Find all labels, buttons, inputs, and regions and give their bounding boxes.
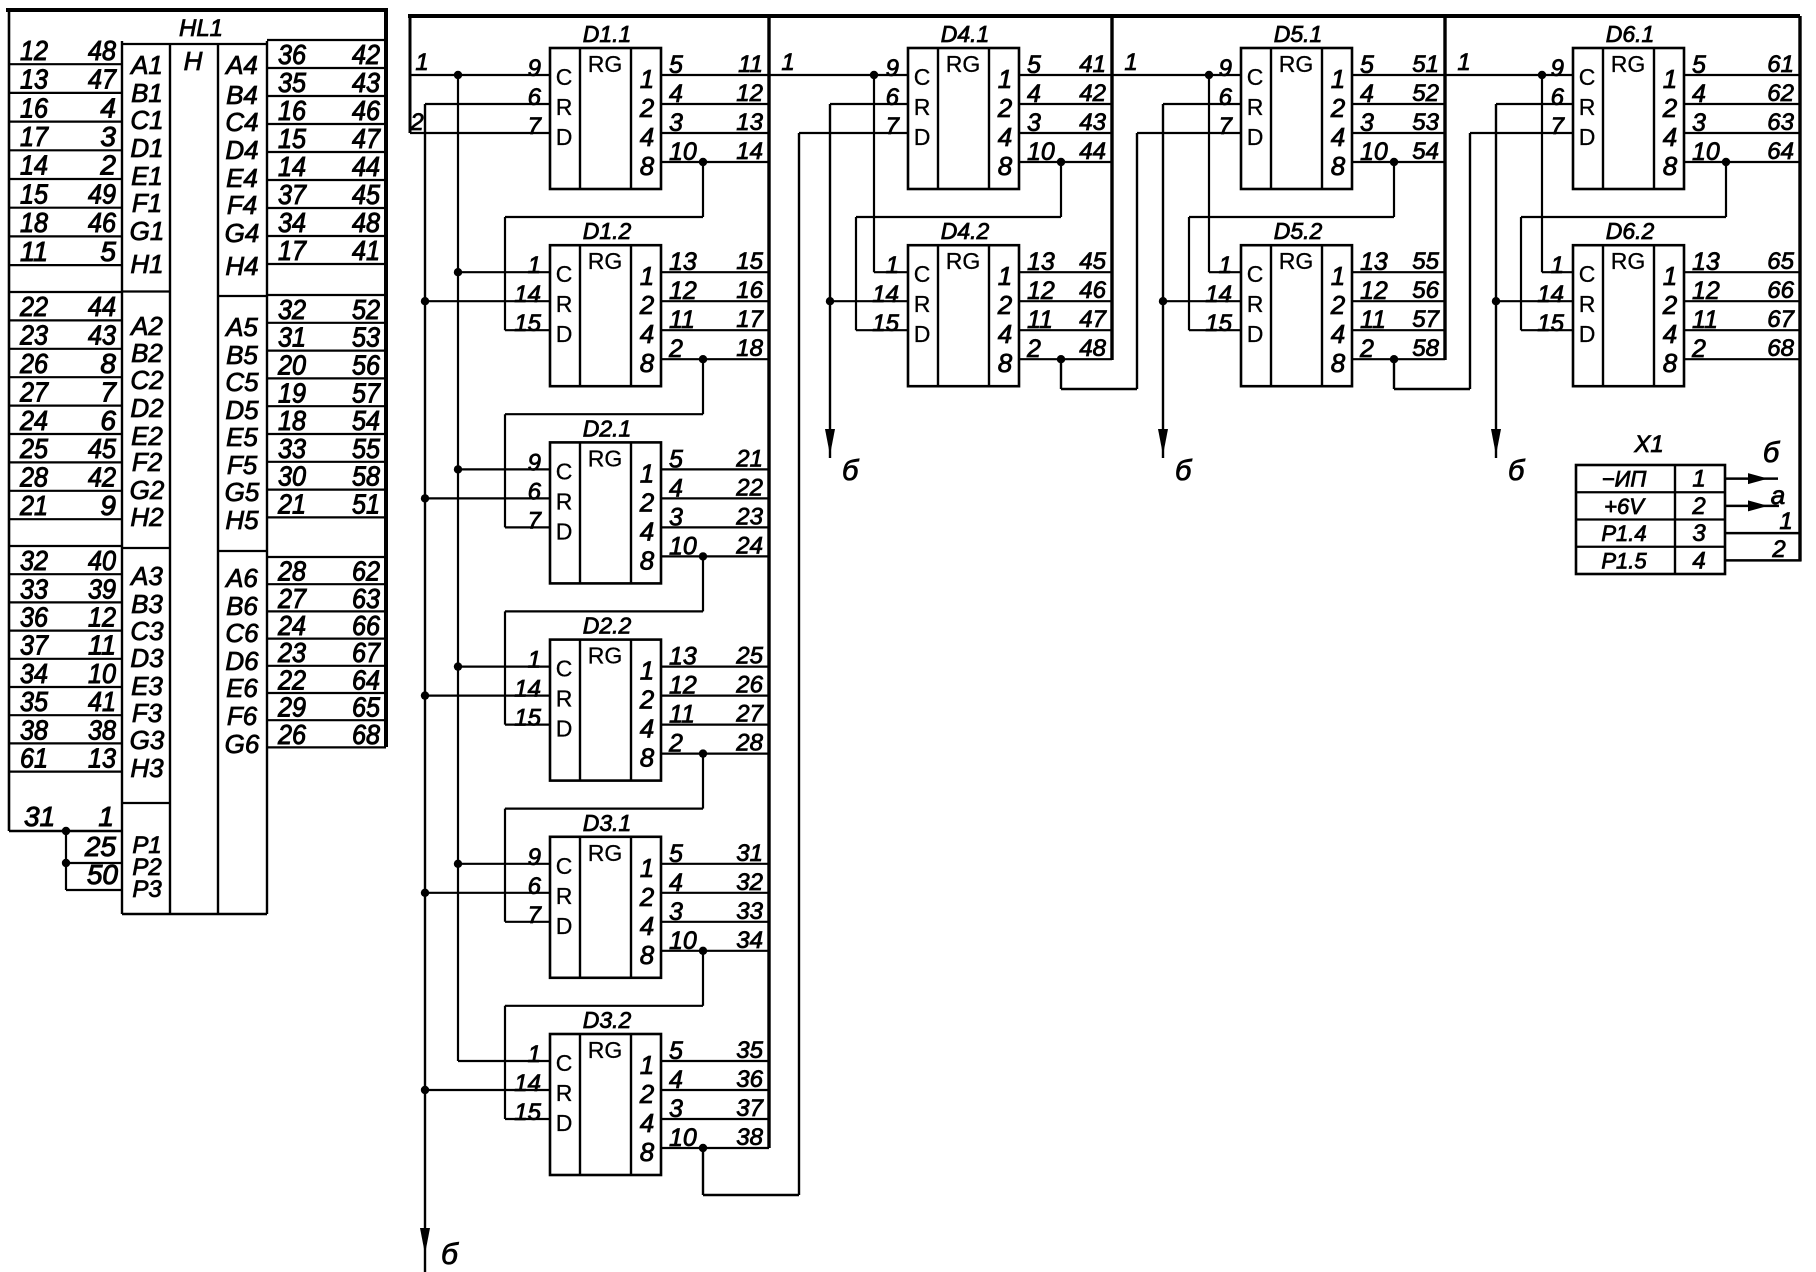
svg-text:3: 3 (1360, 109, 1374, 137)
svg-text:24: 24 (735, 532, 763, 559)
svg-text:42: 42 (88, 462, 116, 493)
svg-text:38: 38 (736, 1124, 763, 1151)
svg-text:12: 12 (1692, 277, 1720, 305)
svg-text:3: 3 (669, 109, 683, 137)
svg-text:B6: B6 (226, 591, 258, 621)
svg-text:RG: RG (1611, 248, 1646, 274)
svg-text:13: 13 (1027, 248, 1055, 276)
svg-text:C: C (1247, 261, 1264, 287)
svg-text:44: 44 (88, 291, 116, 322)
svg-text:C: C (1579, 261, 1596, 287)
svg-text:2: 2 (997, 290, 1013, 320)
svg-text:34: 34 (278, 207, 306, 238)
svg-text:1: 1 (528, 252, 541, 279)
svg-text:R: R (556, 488, 573, 514)
svg-text:C: C (556, 1050, 573, 1076)
svg-text:8: 8 (640, 545, 655, 575)
svg-text:3: 3 (669, 898, 683, 926)
svg-text:D1.1: D1.1 (583, 21, 632, 47)
svg-text:2: 2 (99, 150, 116, 181)
svg-text:C: C (914, 261, 931, 287)
svg-text:12: 12 (1027, 277, 1055, 305)
svg-text:42: 42 (352, 39, 380, 70)
svg-text:C: C (556, 64, 573, 90)
svg-text:32: 32 (736, 869, 763, 896)
svg-text:D3.2: D3.2 (583, 1007, 632, 1033)
svg-text:28: 28 (735, 730, 763, 757)
svg-text:2: 2 (639, 1079, 655, 1109)
svg-text:12: 12 (736, 80, 763, 107)
svg-text:RG: RG (1279, 248, 1314, 274)
svg-text:25: 25 (84, 831, 117, 862)
svg-text:G6: G6 (225, 729, 260, 759)
svg-text:7: 7 (100, 376, 117, 407)
svg-text:R: R (556, 94, 573, 120)
svg-text:37: 37 (736, 1095, 764, 1122)
svg-text:36: 36 (278, 39, 306, 70)
svg-text:7: 7 (1219, 113, 1234, 140)
svg-text:б: б (1175, 455, 1193, 487)
svg-text:D: D (556, 1110, 573, 1136)
svg-text:H4: H4 (225, 251, 258, 281)
svg-text:56: 56 (352, 350, 380, 381)
svg-text:9: 9 (100, 490, 116, 521)
svg-text:C6: C6 (225, 618, 259, 648)
svg-text:14: 14 (514, 676, 541, 703)
svg-text:4: 4 (1331, 122, 1345, 152)
svg-text:16: 16 (20, 92, 48, 123)
svg-text:6: 6 (528, 873, 542, 900)
svg-text:14: 14 (278, 151, 306, 182)
svg-text:9: 9 (1551, 55, 1564, 82)
svg-text:10: 10 (88, 658, 116, 689)
svg-text:3: 3 (1692, 520, 1706, 547)
svg-text:22: 22 (19, 291, 48, 322)
svg-text:32: 32 (278, 294, 306, 325)
svg-text:4: 4 (640, 714, 654, 744)
svg-text:C1: C1 (130, 105, 163, 135)
svg-text:C3: C3 (130, 616, 164, 646)
svg-text:F5: F5 (227, 450, 258, 480)
svg-text:64: 64 (1767, 138, 1794, 165)
svg-text:4: 4 (1663, 319, 1677, 349)
svg-text:8: 8 (640, 348, 655, 378)
svg-text:40: 40 (88, 545, 116, 576)
svg-text:11: 11 (1360, 306, 1386, 334)
svg-text:1: 1 (1219, 252, 1232, 279)
svg-text:P3: P3 (132, 876, 162, 903)
svg-text:1: 1 (998, 261, 1012, 291)
svg-text:9: 9 (1219, 55, 1232, 82)
svg-text:46: 46 (88, 207, 116, 238)
svg-text:D6: D6 (225, 646, 259, 676)
svg-text:35: 35 (20, 686, 48, 717)
svg-text:15: 15 (1537, 310, 1564, 337)
svg-text:RG: RG (588, 1037, 623, 1063)
svg-text:1: 1 (1457, 49, 1470, 76)
svg-text:D: D (914, 124, 931, 150)
svg-text:D5: D5 (225, 395, 259, 425)
svg-text:3: 3 (1692, 109, 1706, 137)
svg-text:3: 3 (669, 503, 683, 531)
svg-text:C: C (1579, 64, 1596, 90)
svg-text:D: D (556, 124, 573, 150)
svg-text:15: 15 (20, 178, 48, 209)
svg-text:D4.1: D4.1 (941, 21, 990, 47)
svg-text:13: 13 (736, 109, 763, 136)
svg-text:4: 4 (640, 1108, 654, 1138)
svg-text:8: 8 (640, 743, 655, 773)
svg-text:E3: E3 (131, 671, 163, 701)
svg-text:65: 65 (1767, 248, 1794, 275)
svg-text:27: 27 (19, 376, 49, 407)
svg-text:D3.1: D3.1 (583, 810, 632, 836)
svg-text:13: 13 (88, 743, 116, 774)
svg-text:F2: F2 (132, 447, 163, 477)
svg-text:A4: A4 (224, 50, 258, 80)
svg-text:37: 37 (278, 179, 307, 210)
svg-text:D: D (1579, 321, 1596, 347)
svg-text:1: 1 (640, 853, 654, 883)
svg-text:68: 68 (352, 719, 380, 750)
svg-text:33: 33 (278, 433, 306, 464)
svg-text:R: R (1247, 291, 1264, 317)
svg-text:1: 1 (998, 64, 1012, 94)
svg-text:б: б (1763, 437, 1781, 469)
svg-text:58: 58 (352, 461, 380, 492)
svg-text:14: 14 (736, 138, 763, 165)
svg-text:44: 44 (1079, 138, 1106, 165)
svg-text:RG: RG (588, 51, 623, 77)
svg-text:A5: A5 (224, 312, 258, 342)
svg-text:5: 5 (1692, 51, 1706, 79)
svg-text:10: 10 (669, 532, 697, 560)
svg-text:G4: G4 (225, 218, 260, 248)
svg-text:1: 1 (415, 49, 428, 76)
svg-text:8: 8 (998, 348, 1013, 378)
svg-text:8: 8 (998, 151, 1013, 181)
svg-text:35: 35 (278, 67, 306, 98)
svg-text:13: 13 (1692, 248, 1720, 276)
svg-text:C: C (556, 261, 573, 287)
svg-text:66: 66 (1767, 277, 1794, 304)
svg-text:C2: C2 (130, 365, 164, 395)
svg-text:5: 5 (669, 840, 683, 868)
svg-text:41: 41 (88, 686, 116, 717)
svg-text:4: 4 (998, 122, 1012, 152)
svg-text:D6.2: D6.2 (1606, 218, 1655, 244)
svg-text:1: 1 (1331, 64, 1345, 94)
svg-text:RG: RG (1611, 51, 1646, 77)
svg-text:41: 41 (1079, 51, 1106, 78)
svg-text:8: 8 (100, 348, 116, 379)
svg-text:4: 4 (1360, 80, 1374, 108)
svg-text:R: R (1579, 291, 1596, 317)
svg-text:31: 31 (736, 840, 763, 867)
svg-text:15: 15 (1205, 310, 1232, 337)
svg-text:45: 45 (1079, 248, 1106, 275)
svg-text:9: 9 (528, 55, 541, 82)
svg-text:24: 24 (19, 405, 48, 436)
svg-text:52: 52 (1412, 80, 1439, 107)
svg-text:55: 55 (1412, 248, 1439, 275)
svg-text:7: 7 (528, 902, 543, 929)
svg-text:11: 11 (88, 630, 116, 661)
svg-text:45: 45 (352, 179, 380, 210)
svg-text:R: R (556, 883, 573, 909)
svg-text:47: 47 (1079, 306, 1107, 333)
svg-text:RG: RG (588, 840, 623, 866)
svg-text:4: 4 (669, 80, 683, 108)
svg-text:51: 51 (352, 489, 380, 520)
svg-text:5: 5 (669, 1037, 683, 1065)
svg-text:4: 4 (669, 1066, 683, 1094)
svg-text:4: 4 (1692, 547, 1705, 574)
svg-text:61: 61 (1767, 51, 1794, 78)
svg-text:34: 34 (20, 658, 48, 689)
svg-text:8: 8 (1331, 151, 1346, 181)
svg-text:6: 6 (100, 405, 116, 436)
svg-text:46: 46 (1079, 277, 1106, 304)
svg-text:1: 1 (886, 252, 899, 279)
svg-text:28: 28 (19, 462, 48, 493)
svg-text:A1: A1 (129, 50, 163, 80)
svg-text:8: 8 (640, 1137, 655, 1167)
svg-text:B1: B1 (131, 78, 163, 108)
svg-text:D4: D4 (225, 135, 258, 165)
svg-text:8: 8 (640, 151, 655, 181)
svg-text:10: 10 (1360, 138, 1388, 166)
svg-text:34: 34 (736, 927, 763, 954)
svg-text:1: 1 (1124, 49, 1137, 76)
svg-text:B2: B2 (131, 338, 163, 368)
svg-text:15: 15 (514, 1099, 541, 1126)
svg-text:D: D (1579, 124, 1596, 150)
svg-text:RG: RG (946, 248, 981, 274)
svg-text:1: 1 (1692, 466, 1705, 493)
svg-text:R: R (556, 686, 573, 712)
svg-text:4: 4 (669, 474, 683, 502)
svg-text:2: 2 (1359, 335, 1374, 363)
svg-text:E4: E4 (226, 163, 258, 193)
svg-text:C: C (1247, 64, 1264, 90)
svg-text:F3: F3 (132, 698, 163, 728)
svg-text:33: 33 (20, 573, 48, 604)
svg-text:C: C (556, 853, 573, 879)
svg-text:15: 15 (872, 310, 899, 337)
svg-text:62: 62 (1767, 80, 1794, 107)
svg-text:32: 32 (20, 545, 48, 576)
svg-text:B5: B5 (226, 340, 258, 370)
svg-text:2: 2 (639, 93, 655, 123)
svg-text:14: 14 (514, 1070, 541, 1097)
svg-text:D1: D1 (130, 133, 163, 163)
svg-text:6: 6 (1219, 84, 1233, 111)
svg-text:D: D (556, 716, 573, 742)
svg-text:5: 5 (669, 51, 683, 79)
svg-text:15: 15 (736, 248, 763, 275)
svg-text:1: 1 (640, 1050, 654, 1080)
svg-text:B3: B3 (131, 589, 163, 619)
svg-text:45: 45 (88, 433, 116, 464)
svg-text:D1.2: D1.2 (583, 218, 632, 244)
svg-text:18: 18 (736, 335, 763, 362)
svg-text:13: 13 (669, 248, 697, 276)
svg-text:14: 14 (1537, 281, 1564, 308)
svg-text:12: 12 (669, 672, 697, 700)
svg-text:15: 15 (514, 705, 541, 732)
svg-text:2: 2 (1771, 536, 1785, 563)
svg-text:E6: E6 (226, 673, 258, 703)
svg-text:D: D (914, 321, 931, 347)
svg-text:16: 16 (736, 277, 763, 304)
svg-text:33: 33 (736, 898, 763, 925)
svg-text:4: 4 (1692, 80, 1706, 108)
svg-text:18: 18 (20, 207, 48, 238)
svg-text:2: 2 (668, 730, 683, 758)
svg-text:16: 16 (278, 95, 306, 126)
svg-text:4: 4 (640, 516, 654, 546)
svg-text:58: 58 (1412, 335, 1439, 362)
svg-text:9: 9 (528, 844, 541, 871)
svg-text:2: 2 (639, 487, 655, 517)
svg-text:H2: H2 (130, 502, 164, 532)
svg-text:6: 6 (886, 84, 900, 111)
svg-text:26: 26 (19, 348, 48, 379)
svg-text:RG: RG (588, 643, 623, 669)
svg-text:2: 2 (1662, 93, 1678, 123)
svg-text:68: 68 (1767, 335, 1794, 362)
svg-text:R: R (1247, 94, 1264, 120)
svg-text:A3: A3 (129, 561, 163, 591)
svg-text:3: 3 (1027, 109, 1041, 137)
svg-text:P1.4: P1.4 (1601, 521, 1646, 546)
svg-text:F6: F6 (227, 701, 258, 731)
svg-text:1: 1 (528, 1041, 541, 1068)
svg-text:D2: D2 (130, 393, 164, 423)
svg-text:4: 4 (100, 92, 116, 123)
svg-text:19: 19 (278, 377, 306, 408)
svg-text:7: 7 (528, 113, 543, 140)
svg-text:9: 9 (528, 449, 541, 476)
svg-text:RG: RG (946, 51, 981, 77)
svg-text:11: 11 (669, 701, 695, 729)
svg-text:67: 67 (1767, 306, 1795, 333)
svg-text:C: C (556, 458, 573, 484)
svg-text:G5: G5 (225, 477, 260, 507)
svg-text:13: 13 (1360, 248, 1388, 276)
svg-text:13: 13 (20, 64, 48, 95)
svg-text:30: 30 (278, 461, 306, 492)
svg-text:1: 1 (1331, 261, 1345, 291)
svg-text:57: 57 (1412, 306, 1440, 333)
svg-text:11: 11 (20, 236, 48, 267)
svg-text:G2: G2 (130, 475, 165, 505)
svg-text:48: 48 (1079, 335, 1106, 362)
svg-text:12: 12 (88, 602, 116, 633)
svg-text:50: 50 (87, 859, 119, 890)
svg-text:11: 11 (1027, 306, 1053, 334)
svg-text:4: 4 (669, 869, 683, 897)
svg-text:F4: F4 (227, 190, 257, 220)
svg-text:RG: RG (1279, 51, 1314, 77)
svg-text:1: 1 (528, 647, 541, 674)
svg-text:D: D (1247, 124, 1264, 150)
svg-text:8: 8 (1331, 348, 1346, 378)
svg-text:51: 51 (1412, 51, 1439, 78)
svg-text:1: 1 (640, 458, 654, 488)
svg-text:36: 36 (20, 602, 48, 633)
svg-text:47: 47 (88, 64, 117, 95)
svg-text:8: 8 (1663, 151, 1678, 181)
svg-text:2: 2 (1026, 335, 1041, 363)
svg-text:61: 61 (20, 743, 48, 774)
svg-text:13: 13 (669, 643, 697, 671)
svg-text:D4.2: D4.2 (941, 218, 990, 244)
svg-text:D2.1: D2.1 (583, 415, 632, 441)
svg-text:21: 21 (19, 490, 48, 521)
svg-text:7: 7 (1551, 113, 1566, 140)
svg-text:2: 2 (1662, 290, 1678, 320)
svg-text:8: 8 (640, 940, 655, 970)
svg-text:48: 48 (88, 35, 116, 66)
svg-text:43: 43 (88, 320, 116, 351)
svg-text:6: 6 (1551, 84, 1565, 111)
svg-text:25: 25 (735, 643, 763, 670)
svg-text:1: 1 (1663, 64, 1677, 94)
svg-text:41: 41 (352, 235, 380, 266)
svg-text:2: 2 (639, 685, 655, 715)
svg-text:4: 4 (640, 911, 654, 941)
svg-text:2: 2 (409, 109, 423, 136)
svg-text:36: 36 (736, 1066, 763, 1093)
svg-text:38: 38 (20, 714, 48, 745)
svg-text:A6: A6 (224, 563, 258, 593)
svg-text:11: 11 (669, 306, 695, 334)
svg-text:14: 14 (20, 150, 48, 181)
svg-text:D5.1: D5.1 (1274, 21, 1323, 47)
svg-text:10: 10 (1692, 138, 1720, 166)
svg-text:15: 15 (514, 310, 541, 337)
svg-text:9: 9 (886, 55, 899, 82)
svg-text:D: D (556, 518, 573, 544)
svg-text:12: 12 (669, 277, 697, 305)
svg-text:35: 35 (736, 1037, 763, 1064)
svg-text:G3: G3 (130, 725, 165, 755)
svg-text:1: 1 (1663, 261, 1677, 291)
svg-text:+6V: +6V (1604, 494, 1646, 519)
svg-text:2: 2 (1330, 93, 1346, 123)
svg-text:4: 4 (1331, 319, 1345, 349)
svg-text:26: 26 (277, 719, 306, 750)
svg-text:48: 48 (352, 207, 380, 238)
svg-text:HL1: HL1 (179, 15, 223, 42)
svg-text:1: 1 (1551, 252, 1564, 279)
svg-text:46: 46 (352, 95, 380, 126)
svg-text:25: 25 (19, 433, 48, 464)
svg-text:12: 12 (1360, 277, 1388, 305)
svg-text:H3: H3 (130, 753, 164, 783)
svg-text:56: 56 (1412, 277, 1439, 304)
svg-text:R: R (914, 291, 931, 317)
svg-text:1: 1 (640, 261, 654, 291)
svg-text:1: 1 (781, 49, 794, 76)
svg-text:H1: H1 (130, 249, 163, 279)
svg-text:C5: C5 (225, 367, 259, 397)
svg-text:C: C (556, 656, 573, 682)
svg-text:26: 26 (735, 672, 763, 699)
svg-text:D: D (1247, 321, 1264, 347)
